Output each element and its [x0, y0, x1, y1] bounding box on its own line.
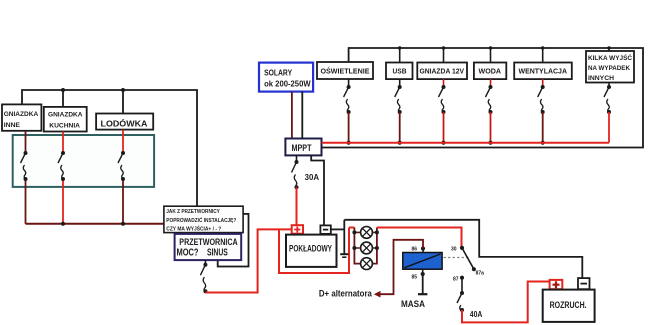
- svg-text:SOLARY: SOLARY: [264, 68, 292, 78]
- svg-text:WENTYLACJA: WENTYLACJA: [519, 69, 568, 76]
- svg-text:CZY MA WYJŚCIA+ / - ?: CZY MA WYJŚCIA+ / - ?: [166, 225, 221, 232]
- svg-text:USB: USB: [393, 69, 407, 76]
- svg-text:ROZRUCH.: ROZRUCH.: [550, 300, 587, 310]
- svg-text:NA WYPADEK: NA WYPADEK: [588, 65, 630, 72]
- svg-text:KILKA WYJŚĆ: KILKA WYJŚĆ: [588, 53, 632, 62]
- svg-text:JAK Z PRZETWORNICY: JAK Z PRZETWORNICY: [166, 209, 220, 215]
- svg-text:OŚWIETLENIE: OŚWIETLENIE: [321, 66, 370, 75]
- svg-text:85: 85: [412, 275, 418, 281]
- svg-text:POKŁADOWY: POKŁADOWY: [289, 243, 332, 253]
- svg-text:INNYCH: INNYCH: [588, 75, 614, 82]
- svg-text:30: 30: [451, 247, 457, 253]
- svg-text:D+ alternatora: D+ alternatora: [319, 289, 373, 300]
- svg-text:30A: 30A: [305, 173, 320, 182]
- svg-text:KUCHNIA: KUCHNIA: [49, 123, 80, 130]
- svg-text:87a: 87a: [476, 271, 485, 277]
- svg-text:40A: 40A: [470, 310, 483, 319]
- svg-text:GNIAZDKA: GNIAZDKA: [4, 111, 39, 118]
- svg-text:GNIAZDKA: GNIAZDKA: [48, 112, 83, 119]
- svg-text:MASA: MASA: [401, 299, 425, 310]
- svg-text:MOC?: MOC?: [177, 248, 199, 259]
- svg-text:MPPT: MPPT: [292, 143, 312, 153]
- svg-text:SINUS: SINUS: [207, 248, 228, 259]
- svg-text:PRZETWORNICA: PRZETWORNICA: [179, 237, 238, 247]
- svg-text:LODÓWKA: LODÓWKA: [101, 120, 148, 129]
- svg-text:INNE: INNE: [4, 122, 21, 129]
- svg-text:86: 86: [412, 247, 418, 253]
- svg-text:WODA: WODA: [479, 69, 502, 76]
- svg-text:ok 200-250W: ok 200-250W: [264, 79, 311, 89]
- svg-text:POPROWADZIĆ INSTALACJĘ?: POPROWADZIĆ INSTALACJĘ?: [166, 216, 236, 224]
- svg-text:GNIAZDA 12V: GNIAZDA 12V: [420, 69, 465, 76]
- svg-text:87: 87: [453, 277, 459, 283]
